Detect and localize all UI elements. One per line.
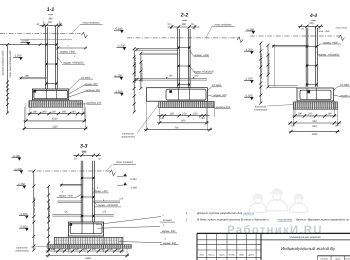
section 2-2 bottom dimension chain 1 xyxy=(158,115,210,117)
svg-text:140: 140 xyxy=(291,125,296,128)
section 2-2 left dimension chains xyxy=(133,49,135,112)
svg-text:Кол.уч.: Кол.уч. xyxy=(208,254,215,257)
svg-text:отм. низа подвала 600: отм. низа подвала 600 xyxy=(9,50,12,78)
svg-text:Индивидуальный жилой Бу: Индивидуальный жилой Бу xyxy=(281,246,336,251)
svg-text:220: 220 xyxy=(99,248,105,251)
svg-text:250: 250 xyxy=(51,110,57,113)
section 2-2 bottom dimension chain 3 xyxy=(144,129,212,131)
section 2-2 wall into footing xyxy=(178,88,180,100)
section 2-2 bedding slab xyxy=(159,101,215,107)
section 2-2 footing outline xyxy=(146,88,207,102)
svg-text:380: 380 xyxy=(42,110,47,113)
section 3-3 right flag -0.560 xyxy=(117,175,123,177)
section 3-3 leader label keram 100 xyxy=(119,242,161,243)
section 1-1 footing outline xyxy=(32,89,68,100)
section 1-1 left floor line xyxy=(0,44,47,46)
svg-text:140: 140 xyxy=(51,248,56,251)
svg-text:керам. +000х600: керам. +000х600 xyxy=(193,71,214,74)
svg-text:№ док.: № док. xyxy=(229,254,236,257)
section 4-4 lines to footing xyxy=(268,85,297,87)
svg-text:полы отделка: полы отделка xyxy=(116,161,133,164)
svg-text:керам. 100: керам. 100 xyxy=(163,242,177,245)
section 4-4 top dimension line xyxy=(298,25,323,27)
section 3-3 x25 lines level 2 xyxy=(52,214,82,216)
section 4-4 footing inner xyxy=(300,90,331,100)
svg-text:140: 140 xyxy=(335,125,340,128)
svg-text:отм. низа подвала 600: отм. низа подвала 600 xyxy=(260,52,263,78)
section 4-4 extension lines bottom xyxy=(292,109,294,126)
section 3-3 bottom dimension chain 2 xyxy=(46,255,130,257)
svg-text:полы отделка: полы отделка xyxy=(215,23,232,26)
section 3-3 floor level dash-dot line xyxy=(28,170,111,172)
section 1-1 bottom dimension chain 1 xyxy=(28,113,86,115)
title block right cells xyxy=(261,239,350,241)
svg-text:Индивидуальные решения: Индивидуальные решения xyxy=(290,236,322,239)
svg-text:Данный чертеж разработан для: Данный чертеж разработан для xyxy=(196,211,242,215)
svg-text:В доме нужен перевод проекту В: В доме нужен перевод проекту В книге с д… xyxy=(197,218,269,222)
section 1-1 bottom dimension chain 3 xyxy=(23,128,88,130)
section 2-2 floor level dash-dot line xyxy=(127,37,240,39)
svg-text:1б мат.: 1б мат. xyxy=(81,76,91,79)
section 2-2 extension lines bottom xyxy=(159,108,161,124)
svg-text:1-1: 1-1 xyxy=(47,7,55,13)
svg-text:180: 180 xyxy=(71,110,76,113)
section 4-4 leader label 16 mat xyxy=(334,86,339,90)
svg-text:керам. +000х600: керам. +000х600 xyxy=(63,61,84,64)
svg-text:700: 700 xyxy=(174,127,179,130)
svg-text:2-2: 2-2 xyxy=(180,13,189,19)
svg-text:керам. +400: керам. +400 xyxy=(59,194,74,197)
section 3-3 footing inner xyxy=(70,224,102,234)
svg-text:1060: 1060 xyxy=(312,133,318,136)
watermark builder figure right xyxy=(295,197,302,204)
section 1-1 break symbol xyxy=(82,32,88,38)
section 3-3 extension lines bottom xyxy=(47,248,49,257)
section 4-4 label keram 000x600 xyxy=(317,52,320,56)
svg-text:данных. Вариант можно проводит: данных. Вариант можно проводить по не xyxy=(296,218,350,222)
svg-text:1б мат.: 1б мат. xyxy=(212,84,222,87)
svg-text:180: 180 xyxy=(116,248,121,251)
section 3-3 mesh marker xyxy=(69,223,72,226)
svg-text:керам. +400: керам. +400 xyxy=(194,54,209,57)
svg-text:щебень 100: щебень 100 xyxy=(85,89,100,92)
title block left grid xyxy=(197,232,350,234)
svg-text:380: 380 xyxy=(182,23,187,26)
section 3-3 wall into footing xyxy=(81,222,83,234)
section 2-2 top dimension line xyxy=(168,26,200,28)
svg-text:380: 380 xyxy=(25,74,30,77)
section 2-2 leader label shcheben 100 xyxy=(212,105,216,108)
svg-text:керам. +400: керам. +400 xyxy=(60,50,75,53)
section 4-4 left floor lines xyxy=(272,44,307,46)
section 1-1 extension lines bottom xyxy=(25,103,27,122)
svg-text:840: 840 xyxy=(312,125,317,128)
section 3-3 break symbol xyxy=(110,170,116,176)
svg-text:керам. 200: керам. 200 xyxy=(213,94,227,97)
section 1-1 wall into footing xyxy=(46,89,48,99)
svg-text:200: 200 xyxy=(108,248,114,251)
svg-text:высота подвала 2500: высота подвала 2500 xyxy=(2,50,5,75)
section 1-1 left dimension chain xyxy=(7,45,9,113)
section 1-1 right floor line xyxy=(57,47,88,49)
svg-text:керам. +000х600: керам. +000х600 xyxy=(319,53,340,56)
svg-text:высота низа 600: высота низа 600 xyxy=(267,54,270,74)
svg-text:180: 180 xyxy=(59,248,64,251)
section 4-4 wall into footing xyxy=(306,88,308,100)
watermark builder figure middle xyxy=(273,192,281,200)
svg-text:250: 250 xyxy=(307,113,313,116)
section 2-2 second floor lines xyxy=(141,52,179,54)
section 3-3 leader label keram 200 xyxy=(97,227,160,229)
svg-text:1110: 1110 xyxy=(52,126,58,129)
svg-text:250: 250 xyxy=(308,22,314,25)
svg-text:180: 180 xyxy=(33,110,38,113)
section 4-4 label keram +400 xyxy=(317,44,322,47)
section 1-1 underfloor line xyxy=(20,39,72,41)
section 3-3 bottom dimension chain 1 xyxy=(46,250,125,252)
svg-text:Подп.: Подп. xyxy=(239,254,245,257)
svg-text:220: 220 xyxy=(74,248,80,251)
section 2-2 basement floor lines xyxy=(135,78,207,80)
svg-text:220: 220 xyxy=(82,248,88,251)
svg-text:керам. +400: керам. +400 xyxy=(323,41,338,44)
section 4-4 wall xyxy=(305,28,307,87)
section 1-1 label keram +400 xyxy=(59,52,77,54)
section 1-1 label keram 000x600 xyxy=(58,58,63,64)
section 2-2 leader label keram 200 xyxy=(208,95,213,97)
section 4-4 bottom dimension chain 3 xyxy=(289,131,340,133)
section 4-4 leader label keram 200 xyxy=(334,95,341,97)
section 3-3 lower footing step xyxy=(54,237,123,244)
svg-text:щебень 100: щебень 100 xyxy=(216,106,231,109)
section 3-3 label keram +400 right xyxy=(94,189,96,191)
section 3-3 x25 lines level 1 xyxy=(58,200,83,202)
svg-text:180: 180 xyxy=(193,113,198,116)
svg-text:3-3: 3-3 xyxy=(80,143,88,149)
svg-text:Дата: Дата xyxy=(247,254,254,257)
svg-text:250: 250 xyxy=(81,151,87,154)
section 4-4 break symbol xyxy=(339,35,345,41)
svg-text:РаботникИ.RU: РаботникИ.RU xyxy=(227,224,323,236)
svg-text:1б мат.: 1б мат. xyxy=(340,84,350,87)
svg-text:подготовка: подготовка xyxy=(121,136,135,139)
svg-text:-0.560: -0.560 xyxy=(129,178,137,181)
section 4-4 left dimension chains xyxy=(260,43,262,103)
svg-text:-0.860: -0.860 xyxy=(130,186,138,189)
section 4-4 floor level dash-dot line xyxy=(250,35,340,37)
svg-text:подготовка: подготовка xyxy=(15,250,29,253)
section 3-3 top dimension line xyxy=(74,154,102,156)
section 3-3 label keram 000x600 xyxy=(94,202,97,205)
section 2-2 mesh marker xyxy=(169,90,172,93)
section 2-2 left floor lines xyxy=(135,48,178,50)
svg-text:250: 250 xyxy=(181,113,187,116)
section 1-1 wall xyxy=(45,27,47,89)
section 3-3 wall xyxy=(80,161,82,222)
section 2-2 bottom dimension chain 2 xyxy=(157,122,209,124)
section 3-3 leader label 16 mat xyxy=(96,217,161,225)
svg-text:250: 250 xyxy=(47,21,53,24)
svg-text:1010: 1010 xyxy=(52,118,58,121)
svg-text:250: 250 xyxy=(91,248,97,251)
svg-text:керам. 200: керам. 200 xyxy=(162,230,176,233)
svg-text:4-4: 4-4 xyxy=(309,13,317,19)
section 4-4 footing outline xyxy=(297,88,334,101)
svg-text:подготовка: подготовка xyxy=(254,109,268,112)
svg-text:полы отд.: полы отд. xyxy=(336,26,348,29)
section 1-1 leader label shcheben 100 low xyxy=(77,103,87,105)
svg-text:Изм.: Изм. xyxy=(200,254,205,257)
section 2-2 footing inner xyxy=(166,89,206,100)
svg-text:180: 180 xyxy=(298,113,303,116)
svg-text:1б мат.: 1б мат. xyxy=(163,219,173,222)
svg-text:1160: 1160 xyxy=(85,257,91,260)
section 1-1 mesh marker xyxy=(33,90,36,93)
svg-text:керам. 200: керам. 200 xyxy=(340,94,350,97)
section 2-2 wall xyxy=(177,29,179,88)
svg-text:щебень 100: щебень 100 xyxy=(87,102,102,105)
section 1-1 top dimension line xyxy=(40,24,63,26)
section 4-4 bottom dimension chain 1 xyxy=(293,115,337,117)
svg-text:560: 560 xyxy=(312,120,317,123)
section 2-2 label keram 000x600 xyxy=(189,66,195,73)
svg-text:380: 380 xyxy=(62,110,67,113)
section 2-2 leader label 16 mat xyxy=(208,87,212,91)
svg-text:Лист: Лист xyxy=(218,254,225,257)
svg-text:ғ25: ғ25 xyxy=(64,211,68,214)
svg-text:180: 180 xyxy=(170,113,175,116)
section 3-3 bedding slab xyxy=(47,245,131,249)
section 1-1 bedding slab xyxy=(29,101,83,108)
svg-text:керам. +000х600: керам. +000х600 xyxy=(98,204,119,207)
svg-text:керам. 200: керам. 200 xyxy=(84,83,98,86)
section 1-1 leader label keram 200 xyxy=(69,85,84,94)
section 4-4 mesh marker xyxy=(307,91,310,94)
section 4-4 bedding slab xyxy=(293,102,337,109)
section 4-4 bottom dimension chain 2 xyxy=(288,122,341,124)
section 1-1 footing inner xyxy=(34,90,68,98)
svg-text:полы отделка: полы отделка xyxy=(83,22,100,25)
section 2-2 break symbol xyxy=(237,37,243,43)
svg-text:отм. низа подвала 600: отм. низа подвала 600 xyxy=(134,56,137,82)
section 3-3 left floor lines xyxy=(60,183,82,185)
section 1-1 bottom dimension chain 2 xyxy=(24,120,87,122)
section 1-1 leader label 16 mat xyxy=(69,79,80,90)
svg-text:560: 560 xyxy=(181,120,186,123)
svg-text:высота низа 600: высота низа 600 xyxy=(48,202,51,222)
section 3-3 footing outline xyxy=(68,222,103,236)
svg-text:керам. +400: керам. +400 xyxy=(93,190,108,193)
svg-text:отм. низа 600: отм. низа 600 xyxy=(33,196,36,213)
svg-text:380: 380 xyxy=(48,17,53,20)
watermark builder figure left xyxy=(255,197,262,204)
section 2-2 label keram +400 xyxy=(189,50,194,57)
svg-text:переводом: переводом xyxy=(278,218,293,222)
svg-text:отм. +400: отм. +400 xyxy=(318,30,330,33)
section 1-1 leader label shcheben 100 xyxy=(69,91,86,97)
svg-text:180: 180 xyxy=(327,113,332,116)
section 3-3 left dimension chains xyxy=(33,171,35,250)
svg-text:2: 2 xyxy=(185,218,188,222)
section 1-1 floor level dash-dot line xyxy=(0,33,81,35)
section 3-3 right flag -0.860 xyxy=(117,184,123,186)
section 1-1 basement floor lines xyxy=(20,76,47,78)
